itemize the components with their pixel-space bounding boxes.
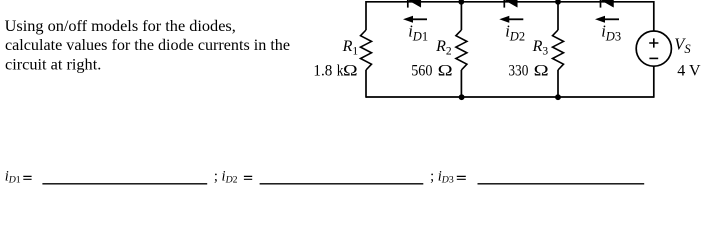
svg-text:330Ω: 330Ω	[508, 62, 548, 79]
resistor R3	[553, 30, 564, 70]
resistor R2	[456, 30, 467, 70]
svg-text:calculate values for the diode: calculate values for the diode currents …	[5, 35, 290, 54]
svg-text:R3: R3	[532, 38, 549, 58]
problem statement text	[5, 16, 290, 73]
svg-text:4 V: 4 V	[677, 62, 701, 79]
resistor R1	[361, 30, 372, 70]
svg-text:R2: R2	[435, 38, 452, 58]
wire left branch (R1)	[365, 1, 367, 98]
wire R2 branch	[460, 2, 462, 97]
wire R3 branch	[557, 2, 559, 97]
equals sign 3	[457, 176, 466, 179]
diode D3	[601, 0, 614, 8]
svg-text:; iD2: ; iD2	[214, 169, 238, 186]
svg-text:560Ω: 560Ω	[411, 62, 453, 79]
svg-text:iD3: iD3	[601, 21, 621, 43]
diode D1	[408, 0, 421, 8]
answer blank 2	[260, 183, 424, 185]
svg-text:VS: VS	[674, 34, 691, 56]
svg-text:circuit at right.: circuit at right.	[5, 54, 101, 73]
node top junction R2	[458, 0, 464, 5]
current arrow iD3	[595, 16, 619, 23]
svg-text:1.8kΩ: 1.8kΩ	[313, 62, 357, 79]
diode D2	[504, 0, 517, 8]
voltage source VS	[636, 31, 671, 66]
svg-text:iD2: iD2	[505, 21, 525, 43]
equals sign 1	[23, 176, 31, 179]
svg-text:Using on/off models for the di: Using on/off models for the diodes,	[5, 16, 236, 35]
wire top rail	[366, 1, 654, 3]
node top junction R3	[555, 0, 561, 5]
svg-text:iD1: iD1	[5, 169, 21, 186]
node bottom junction R3	[555, 94, 561, 100]
equals sign 2	[244, 176, 252, 179]
current arrow iD1	[403, 16, 427, 23]
node bottom junction R2	[459, 94, 465, 100]
svg-text:R1: R1	[342, 38, 359, 58]
answer blank 3	[478, 183, 645, 185]
answer blank 1	[42, 183, 207, 185]
wire bottom rail	[366, 96, 654, 98]
wire right branch (source)	[653, 1, 655, 98]
svg-text:; iD3: ; iD3	[430, 169, 454, 186]
current arrow iD2	[499, 16, 523, 23]
svg-text:iD1: iD1	[408, 21, 428, 43]
